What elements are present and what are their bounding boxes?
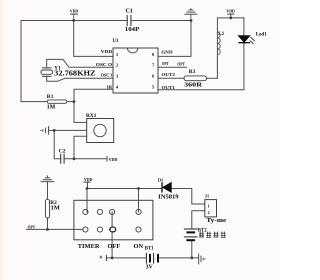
svg-text:C2: C2 (59, 148, 66, 154)
wire pin6 to R3 (158, 77, 184, 79)
svg-text:TIMER: TIMER (78, 243, 100, 250)
wire OPT port to switch (27, 228, 83, 230)
wire battery rail left (106, 257, 145, 259)
capacitor C2 (59, 148, 66, 163)
node junction col4 (137, 187, 140, 190)
wire R3 right lead to L1 (207, 77, 218, 79)
LED Led1 (238, 32, 267, 45)
wire RX1 mid lead to ground (49, 129, 87, 131)
node junction VDD right (229, 17, 232, 20)
power port VDD above switch (83, 177, 93, 182)
svg-text:VDD: VDD (226, 9, 235, 14)
wire RX1 top lead (74, 121, 87, 123)
svg-text:VDD: VDD (84, 177, 93, 182)
inductor L1 (217, 31, 224, 78)
capacitor C1 (125, 9, 140, 33)
wire VDD rail above switch (87, 182, 162, 188)
wire pin4 IR to R1 node (74, 89, 113, 122)
wire ground node down to C2 (54, 130, 61, 158)
svg-text:C1: C1 (126, 9, 133, 15)
svg-text:VDD: VDD (101, 49, 112, 54)
receiver module RX1 (86, 113, 114, 143)
wire VDD top right tee (217, 14, 244, 18)
wire crystal top path to pin2 (47, 59, 113, 68)
svg-text:360R: 360R (184, 83, 203, 89)
wire left vertical (VDD to R1) (20, 21, 22, 102)
wire top horizontal left (VDD net) (21, 20, 127, 22)
svg-text:3V: 3V (146, 265, 154, 271)
svg-text:J1: J1 (205, 194, 209, 199)
ground left of RX1 (40, 126, 48, 135)
svg-text:R3: R3 (189, 69, 196, 75)
svg-text:BT1: BT1 (145, 247, 154, 252)
crystal Y1 (41, 66, 96, 78)
ground right bottom (199, 254, 206, 265)
switch block SW1 (74, 200, 153, 240)
svg-text:D1: D1 (158, 178, 163, 183)
svg-text:L1: L1 (218, 31, 224, 37)
resistor R1 (47, 94, 67, 110)
svg-text:32.768KHZ: 32.768KHZ (54, 68, 95, 77)
wire L1 top connect (216, 18, 218, 32)
op-amp U1 IC body (113, 39, 159, 93)
wire diode to J1 pin1 (171, 189, 204, 205)
svg-text:VDD: VDD (109, 157, 118, 162)
wire C2 to VDD port (64, 158, 107, 160)
svg-text:2: 2 (208, 210, 210, 215)
wire LED cathode down and left to pin5 (158, 43, 244, 90)
wire crystal bottom path to pin3 (47, 76, 113, 81)
power port VDD top right (226, 9, 235, 14)
svg-text:OPT: OPT (162, 61, 169, 66)
svg-text:R1: R1 (47, 94, 54, 100)
wire earth to R2 top (47, 182, 49, 200)
wire RX1 low lead (74, 136, 87, 159)
ground earth above R2 (41, 175, 55, 181)
node junction C2 right (73, 157, 76, 160)
port tick battery rail (100, 255, 107, 261)
left scan edge strip (0, 0, 3, 280)
svg-text:OUT1: OUT1 (162, 85, 175, 90)
wire switch col3 to battery rail (111, 212, 113, 258)
wire VDD stub to pin1 (74, 21, 113, 57)
node junction VDD top (72, 19, 75, 22)
svg-text:1: 1 (208, 204, 210, 209)
wire switch col1 drop (86, 189, 88, 212)
svg-text:2: 2 (116, 63, 118, 68)
wire R2 bottom lead (47, 218, 49, 229)
port OPT bottom left (28, 225, 36, 230)
label niu kou dian chi (199, 232, 226, 238)
battery BT2 button cell (184, 229, 207, 241)
svg-text:1: 1 (116, 52, 118, 57)
battery BT1 (145, 247, 158, 271)
resistor R2 (45, 199, 59, 218)
svg-text:OSC I: OSC I (101, 73, 113, 78)
svg-text:OSC O: OSC O (96, 62, 113, 67)
node junction R1 right (73, 100, 76, 103)
svg-text:OPT: OPT (28, 225, 36, 230)
ground earth top right (184, 8, 197, 20)
svg-text:GND: GND (161, 49, 172, 54)
svg-text:OPT: OPT (177, 61, 185, 66)
wire switch col4 drop (138, 189, 140, 212)
wire R1 right lead (67, 101, 74, 103)
power port VDD top left (70, 9, 79, 21)
svg-text:IN5819: IN5819 (158, 193, 178, 200)
wire BT2 bottom drop (191, 240, 193, 258)
svg-text:U1: U1 (113, 39, 119, 44)
wire BT1 to BT2 node (159, 257, 199, 259)
power port VDD right of C2 (107, 156, 117, 162)
node junction col3 battery rail (111, 257, 114, 260)
resistor R3 (184, 69, 207, 89)
node junction gnd top (190, 19, 193, 22)
node junction VDD switch (86, 187, 89, 190)
node junction ground RX1 (53, 129, 56, 132)
wire pin7 OPT stub (158, 66, 187, 68)
wire J1 pin2 to BT2 (192, 211, 205, 229)
svg-text:Ty-me: Ty-me (206, 217, 226, 224)
svg-text:OUT2: OUT2 (162, 72, 175, 77)
svg-text:1M: 1M (47, 105, 56, 111)
svg-text:VDD: VDD (70, 9, 79, 14)
svg-text:104P: 104P (125, 27, 140, 33)
svg-text:Led1: Led1 (256, 32, 267, 38)
svg-text:ON: ON (134, 243, 144, 250)
node junction BT2 bottom (190, 257, 193, 260)
connector J1 (205, 194, 227, 224)
wire GND drop to pin8 (158, 21, 191, 57)
wire R1 left lead (21, 101, 47, 103)
wire top horizontal right (C1 to GND) (131, 20, 191, 22)
svg-text:1M: 1M (51, 204, 60, 211)
wire L1 branch vertical (216, 32, 218, 78)
svg-text:OFF: OFF (108, 243, 121, 250)
diode D1 (158, 178, 179, 201)
node junction R2 bottom (46, 228, 49, 231)
wire LED anode vertical (243, 18, 245, 36)
